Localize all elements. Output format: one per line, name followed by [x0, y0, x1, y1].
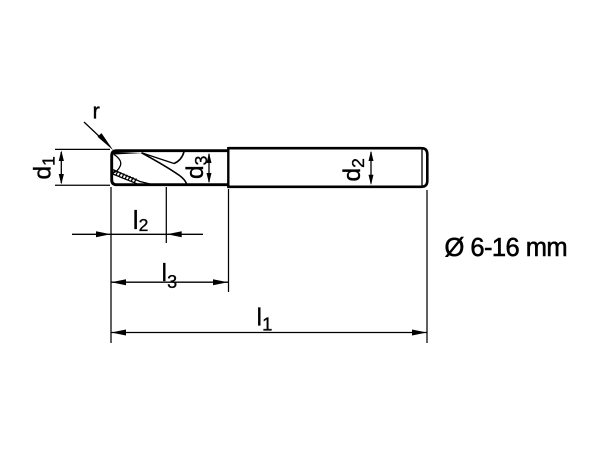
flute diagonal lower (S-curve)	[142, 153, 187, 185]
svg-text:d3: d3	[182, 156, 211, 179]
l3 extension line right	[228, 189, 230, 292]
svg-text:l1: l1	[257, 304, 273, 335]
l3 dimension line	[111, 281, 228, 283]
d1 extension line top	[55, 148, 110, 150]
d3 arrow top	[207, 153, 212, 163]
l1 arrow left	[111, 330, 126, 336]
d2 arrow top	[369, 151, 374, 161]
l1 extension line right	[426, 190, 428, 343]
cutting lip ribbon lower boundary	[112, 174, 138, 184]
head-shank junction line	[227, 147, 229, 188]
l3 arrow right	[213, 279, 228, 285]
cutting lip ribbon upper boundary	[113, 170, 151, 185]
svg-text:l2: l2	[133, 205, 149, 235]
d1 extension line bottom	[55, 184, 110, 186]
svg-text:Ø 6-16 mm: Ø 6-16 mm	[445, 234, 568, 262]
flute diagonal upper	[142, 153, 175, 164]
shank end inner line	[421, 149, 423, 185]
d1 arrow bottom	[59, 174, 64, 185]
d3 arrow bottom	[207, 173, 212, 183]
d1 arrow top	[59, 150, 64, 161]
l1 extension line left	[110, 187, 112, 343]
l3 arrow left	[111, 279, 126, 285]
l2 dimension line	[72, 233, 203, 235]
svg-text:d1: d1	[30, 156, 59, 179]
l1 dimension line	[111, 332, 427, 334]
d3 dimension line	[208, 154, 210, 182]
leader arrowhead	[98, 133, 114, 150]
hatching on cutting lip	[113, 170, 137, 183]
d2 arrow bottom	[369, 175, 374, 185]
l2 extension line right	[165, 187, 167, 243]
flute root wedge along top edge	[112, 152, 142, 155]
svg-text:r: r	[93, 98, 100, 123]
end tooth hook	[113, 155, 121, 174]
l2 arrow left (outside, pointing right)	[96, 231, 111, 237]
d1 dimension line	[60, 152, 62, 183]
l2 arrow right (outside, pointing left)	[167, 231, 182, 237]
d2 dimension line	[370, 152, 372, 184]
svg-text:d2: d2	[339, 158, 368, 181]
leader line r	[84, 122, 102, 139]
flute runout curve	[174, 152, 184, 164]
shank body d2	[228, 148, 427, 187]
svg-text:l3: l3	[162, 259, 178, 292]
l1 arrow right	[412, 330, 427, 336]
cutter head outline	[112, 151, 229, 185]
